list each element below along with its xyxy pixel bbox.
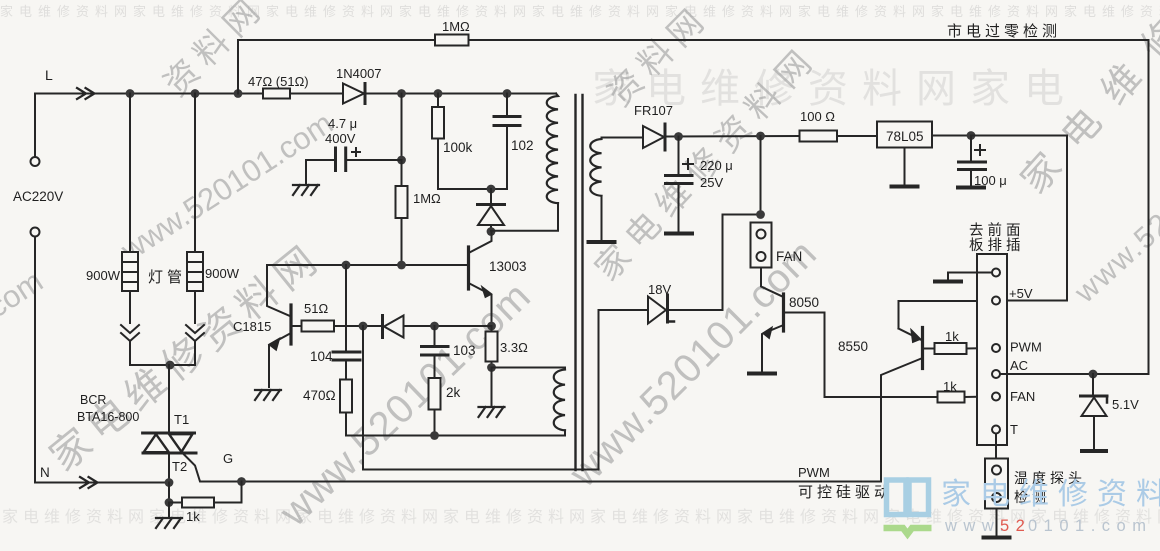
wire to feedback winding top bbox=[492, 368, 566, 370]
svg-text:+5V: +5V bbox=[1009, 286, 1033, 301]
wire base line to 104 bbox=[345, 265, 347, 351]
wire 1k to FAN pin bbox=[965, 396, 992, 399]
wire 4.7u left lead bbox=[306, 160, 336, 183]
svg-text:PWM: PWM bbox=[798, 465, 830, 480]
svg-text:8050: 8050 bbox=[789, 295, 819, 310]
wire 1k to gate bbox=[214, 482, 242, 503]
connector FAN bbox=[751, 223, 772, 268]
resistor 100R bbox=[800, 131, 838, 142]
svg-text:家电维修资料网家电维修资料网家电维修资料网家电维修资料网家电: 家电维修资料网家电维修资料网家电维修资料网家电维修资料网家电维修资料网家电维修资… bbox=[0, 4, 1160, 19]
regulator 78L05 bbox=[877, 122, 932, 148]
transistor 13003 bbox=[469, 232, 492, 327]
node 13003 emitter on drive rail bbox=[487, 322, 496, 331]
svg-text:C1815: C1815 bbox=[233, 319, 271, 334]
svg-text:FAN: FAN bbox=[1010, 389, 1035, 404]
svg-text:T: T bbox=[1010, 422, 1018, 437]
svg-text:可控硅驱动: 可控硅驱动 bbox=[798, 484, 893, 501]
node top-line tap bbox=[234, 89, 243, 98]
svg-text:104: 104 bbox=[310, 349, 333, 364]
pin T bbox=[992, 426, 1000, 434]
wire to ground bbox=[491, 368, 493, 406]
transformer core bbox=[574, 95, 576, 470]
terminal N circle bbox=[31, 228, 40, 237]
resistor 470R bbox=[340, 380, 352, 413]
wire 1M to base line bbox=[401, 218, 403, 265]
wire zero-cross detect line to right edge bbox=[469, 40, 1149, 374]
wire lamp2 top lead bbox=[194, 94, 196, 253]
wire 2k to bottom line bbox=[434, 410, 436, 436]
resistor 1k (PWM) bbox=[935, 343, 967, 354]
wire N line bbox=[35, 237, 165, 483]
pin AC bbox=[992, 370, 1000, 378]
logo green ribbon bbox=[884, 528, 932, 534]
node rail 100k tap bbox=[434, 89, 443, 98]
transistor 8550 bbox=[881, 301, 992, 482]
arrow lamp2 bbox=[186, 325, 204, 341]
resistor 100k (snubber) bbox=[432, 107, 444, 139]
svg-text:AC: AC bbox=[1010, 358, 1028, 373]
wire snubber bottom link bbox=[438, 188, 507, 190]
svg-text:13003: 13003 bbox=[489, 259, 527, 274]
svg-text:900W: 900W bbox=[86, 268, 121, 283]
pin GND bbox=[992, 269, 1000, 277]
wire primary bottom to collector node bbox=[491, 203, 558, 231]
svg-text:1k: 1k bbox=[943, 379, 957, 394]
node FAN / 18V junction bbox=[756, 210, 765, 219]
wire drive rail to 18V zener bbox=[363, 310, 647, 470]
svg-text:2k: 2k bbox=[446, 385, 461, 400]
transistor 8050 bbox=[762, 294, 825, 397]
capacitor 100u electrolytic bbox=[959, 162, 986, 170]
arrow lamp1 bbox=[121, 325, 139, 341]
svg-text:1N4007: 1N4007 bbox=[336, 66, 382, 81]
wire AC pin to zero-cross line bbox=[1001, 373, 1149, 375]
wire T pin to probe connector bbox=[995, 434, 997, 459]
svg-text:T1: T1 bbox=[174, 412, 189, 427]
resistor 1M (base bleed) bbox=[396, 186, 408, 218]
wire lamp bottom join bbox=[130, 341, 195, 365]
transformer primary winding bbox=[547, 94, 558, 204]
resistor 2k bbox=[429, 378, 441, 410]
wire triac T2 lead bbox=[168, 453, 170, 483]
ground (4.7u) bbox=[293, 185, 319, 195]
lamp tube 900W left bbox=[122, 252, 138, 291]
ground (78L05) bbox=[892, 185, 918, 189]
ground (3.3R) bbox=[479, 407, 505, 417]
wire 1k left lead bbox=[169, 502, 182, 504]
zener diode 5.1V bbox=[1081, 396, 1108, 416]
svg-text:220 μ: 220 μ bbox=[700, 158, 733, 173]
wire triac T1 lead bbox=[168, 365, 170, 433]
wire rail down to FAN node bbox=[760, 136, 762, 215]
node 104 tap bbox=[342, 261, 351, 270]
lamp tube 900W right bbox=[187, 252, 203, 291]
wire lamp1 lower lead bbox=[129, 291, 131, 323]
resistor 1k (gate) bbox=[182, 498, 214, 508]
svg-text:4.7 μ: 4.7 μ bbox=[328, 116, 357, 131]
wire L line bbox=[35, 93, 263, 95]
node rail 102 tap bbox=[503, 89, 512, 98]
svg-text:T2: T2 bbox=[172, 459, 187, 474]
wire +V rail to 100R bbox=[667, 135, 800, 138]
svg-text:51Ω: 51Ω bbox=[304, 301, 328, 316]
diode base drive (points left) bbox=[383, 316, 404, 338]
node drive rail / 18V branch bbox=[359, 322, 368, 331]
svg-text:FR107: FR107 bbox=[634, 103, 673, 118]
connector temperature probe bbox=[985, 459, 1008, 509]
wire rail to 102 bbox=[506, 94, 508, 117]
transformer secondary winding bbox=[590, 139, 601, 196]
wire to 5.1V zener bbox=[1092, 374, 1094, 396]
svg-text:100 μ: 100 μ bbox=[974, 173, 1007, 188]
node 100u tap bbox=[967, 131, 976, 140]
capacitor 4.7u 400V electrolytic bbox=[336, 148, 346, 171]
svg-text:家电维修资料网: 家电维修资料网 bbox=[941, 478, 1160, 511]
svg-text:板排插: 板排插 bbox=[969, 236, 1025, 254]
wire rail to 100u bbox=[970, 136, 972, 163]
svg-text:102: 102 bbox=[511, 138, 534, 153]
pin PWM bbox=[992, 344, 1000, 352]
ground (220u) bbox=[666, 232, 692, 236]
svg-text:BCR: BCR bbox=[80, 393, 106, 407]
node 2k bottom junction bbox=[430, 431, 439, 440]
diode FR107 bbox=[643, 124, 665, 150]
wire 100k to snubber node bbox=[437, 139, 439, 190]
svg-text:103: 103 bbox=[453, 343, 476, 358]
capacitor 220u 25V electrolytic bbox=[666, 176, 693, 184]
wire 103 to 2k bbox=[434, 355, 436, 378]
svg-text:AC220V: AC220V bbox=[13, 189, 63, 204]
svg-text:47Ω (51Ω): 47Ω (51Ω) bbox=[248, 74, 309, 89]
svg-text:PWM: PWM bbox=[1010, 340, 1042, 355]
ground (C1815 emitter) bbox=[255, 390, 281, 400]
ground (triac gate return) bbox=[156, 518, 182, 528]
wire 8050 base to FAN 1k bbox=[825, 396, 938, 398]
wire 100R to 78L05 bbox=[837, 135, 877, 137]
svg-text:BTA16-800: BTA16-800 bbox=[77, 410, 139, 424]
ground (8050 emitter) bbox=[749, 372, 775, 376]
node 5.1V zener tap bbox=[1089, 370, 1098, 379]
capacitor 104 bbox=[333, 352, 360, 360]
wire 4.7u right lead bbox=[347, 159, 402, 161]
node 103 tap bbox=[430, 322, 439, 331]
wire 51R to diode bbox=[334, 325, 383, 327]
wire 47R to 1N4007 bbox=[290, 93, 343, 95]
wire C1815 collector to base line bbox=[267, 265, 290, 316]
wire rail to 100k bbox=[437, 94, 439, 108]
node 4.7u junction bbox=[397, 156, 406, 165]
ground (5.1V zener) bbox=[1082, 449, 1106, 453]
wire triac gate / PWM scr-drive line bbox=[182, 452, 881, 482]
zener diode 18V bbox=[648, 295, 674, 324]
wire C1815 base lead bbox=[291, 325, 302, 327]
svg-text:去前面: 去前面 bbox=[969, 222, 1025, 239]
capacitor 102 (snubber) bbox=[494, 117, 520, 126]
triac BTA16-800 bbox=[143, 433, 196, 453]
node 1M bottom bbox=[397, 261, 406, 270]
node 1k left bbox=[165, 498, 174, 507]
plus sign 100u bbox=[975, 145, 985, 155]
wire 18V zener to +V rail bbox=[668, 215, 757, 311]
wire zener to ground bbox=[1093, 416, 1095, 449]
wire top rail to primary bbox=[367, 93, 556, 95]
resistor 3.3R bbox=[486, 332, 498, 362]
svg-text:市电过零检测: 市电过零检测 bbox=[947, 23, 1061, 40]
wire 4.7u node to 1M bbox=[401, 160, 403, 186]
svg-text:N: N bbox=[40, 465, 50, 480]
svg-text:3.3Ω: 3.3Ω bbox=[500, 340, 528, 355]
wire pin1 to ground bbox=[948, 273, 992, 281]
wire L terminal drop bbox=[34, 94, 36, 158]
wire secondary bottom to ground bbox=[601, 196, 603, 241]
resistor 1k (FAN) bbox=[938, 392, 965, 403]
node 3.3R/feedback junction bbox=[487, 363, 496, 372]
ground (100u) bbox=[958, 186, 984, 190]
diode snubber (points up) bbox=[478, 189, 505, 232]
wire 100u to ground bbox=[970, 170, 972, 186]
svg-text:1k: 1k bbox=[945, 329, 959, 344]
wire rail to 4.7u node bbox=[401, 94, 403, 161]
wire 78L05 ground lead bbox=[904, 148, 906, 185]
logo book icon bbox=[887, 480, 929, 515]
plus sign 4.7u bbox=[352, 148, 360, 156]
wire 470R to bottom line bbox=[345, 413, 347, 436]
wire FAN to 8050 collector bbox=[761, 268, 784, 298]
connector front-panel header bbox=[977, 254, 1007, 445]
svg-text:0101.com: 0101.com bbox=[1028, 517, 1152, 535]
svg-text:78L05: 78L05 bbox=[886, 129, 924, 144]
svg-text:100k: 100k bbox=[443, 140, 473, 155]
resistor 47R(51R) bbox=[263, 89, 290, 99]
svg-text:52: 52 bbox=[1000, 517, 1031, 535]
svg-text:1MΩ: 1MΩ bbox=[413, 191, 441, 206]
node snubber diode top bbox=[487, 185, 496, 194]
pin +5V bbox=[992, 297, 1000, 305]
wire lamp1 top lead bbox=[129, 94, 131, 253]
svg-text:470Ω: 470Ω bbox=[303, 388, 336, 403]
node collector junction bbox=[487, 227, 496, 236]
arrow on L line bbox=[77, 88, 95, 99]
terminal L circle bbox=[31, 157, 40, 166]
node T2 junction bbox=[165, 478, 174, 487]
node 220u tap bbox=[674, 132, 683, 141]
wire to top 1M bbox=[238, 40, 435, 94]
wire 1k to PWM pin bbox=[967, 347, 992, 350]
svg-text:100 Ω: 100 Ω bbox=[800, 109, 835, 124]
node FAN drop bbox=[756, 132, 765, 141]
wire probe to ground bbox=[996, 509, 998, 537]
ground (probe) bbox=[984, 536, 1010, 540]
wire 220u to ground bbox=[678, 184, 680, 233]
wire drive rail right bbox=[404, 325, 492, 327]
svg-text:G: G bbox=[223, 451, 233, 466]
wire feedback bottom line bbox=[346, 430, 565, 435]
node lamp junction bbox=[166, 361, 175, 370]
transistor C1815 bbox=[269, 305, 291, 387]
wire 13003 base line bbox=[267, 264, 469, 266]
node lamp2 tap bbox=[191, 89, 200, 98]
pin FAN bbox=[992, 393, 1000, 401]
svg-text:1MΩ: 1MΩ bbox=[442, 19, 470, 34]
diode 1N4007 bbox=[343, 84, 365, 104]
svg-text:L: L bbox=[45, 67, 53, 83]
transformer feedback winding bbox=[554, 370, 565, 431]
svg-text:8550: 8550 bbox=[838, 339, 868, 354]
capacitor 103 bbox=[422, 347, 449, 356]
svg-text:灯管: 灯管 bbox=[148, 269, 186, 286]
wire secondary top to FR107 bbox=[602, 138, 644, 140]
node rail 4.7u tap bbox=[397, 89, 406, 98]
wire emitter to 3.3R bbox=[491, 326, 493, 332]
wire rail to 220u bbox=[678, 137, 680, 176]
wire +5V to panel bbox=[971, 136, 1067, 301]
node gate-resistor junction bbox=[237, 477, 246, 486]
plus sign 220u bbox=[683, 159, 693, 169]
wire lamp2 to join bbox=[194, 341, 196, 365]
wire 8550 base lead bbox=[923, 348, 935, 350]
svg-text:25V: 25V bbox=[700, 175, 723, 190]
wire to ground bbox=[168, 503, 170, 518]
svg-text:18V: 18V bbox=[648, 282, 671, 297]
ground (secondary) bbox=[589, 240, 615, 244]
ground (panel pin1) bbox=[935, 280, 961, 284]
svg-text:400V: 400V bbox=[325, 131, 356, 146]
wire T2 to 1k bbox=[168, 483, 170, 503]
svg-text:5.1V: 5.1V bbox=[1112, 397, 1139, 412]
node lamp1 tap bbox=[126, 89, 135, 98]
wire 104 to 470R bbox=[345, 360, 347, 380]
wire 102 to snubber node bbox=[506, 126, 508, 190]
svg-text:1k: 1k bbox=[186, 509, 200, 524]
wire rail to 103 bbox=[434, 326, 436, 346]
svg-text:900W: 900W bbox=[205, 266, 240, 281]
resistor 51R bbox=[302, 321, 335, 332]
wire lamp2 lower lead bbox=[194, 291, 196, 323]
svg-text:FAN: FAN bbox=[776, 249, 802, 264]
resistor 1M (top, zero-cross) bbox=[435, 35, 469, 46]
arrow on N line bbox=[80, 477, 98, 488]
wire 78L05 out bbox=[932, 135, 971, 137]
wire 3.3R bottom bbox=[491, 362, 493, 368]
